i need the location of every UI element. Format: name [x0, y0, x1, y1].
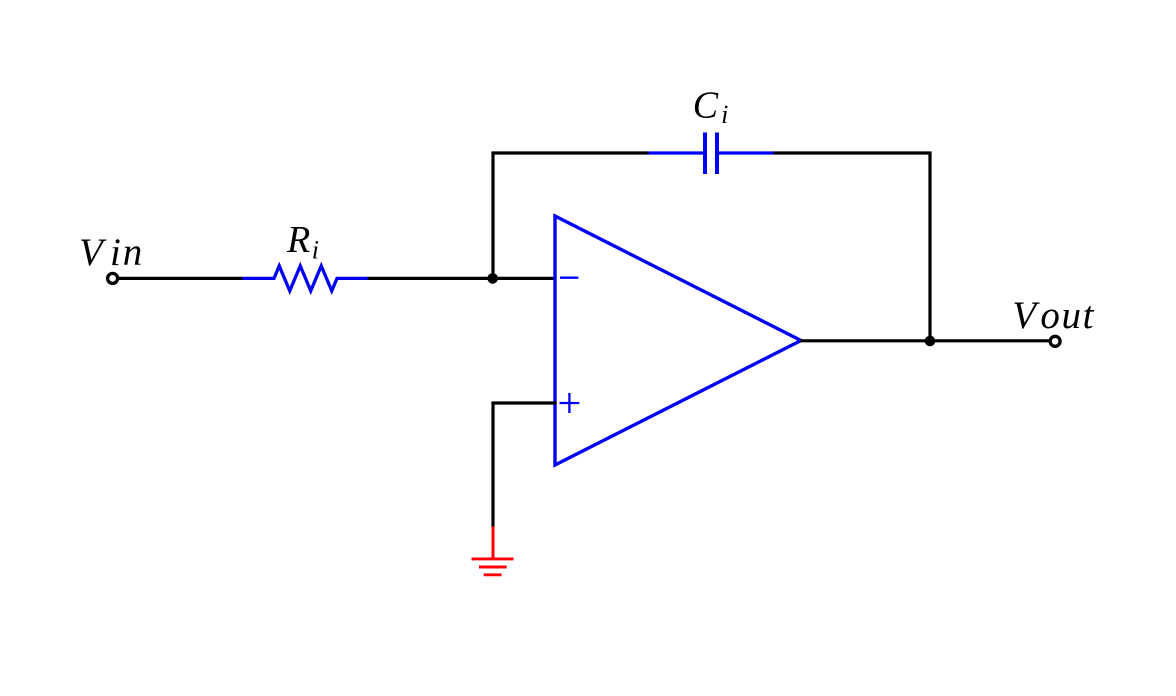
svg-text:Vout: Vout [1012, 294, 1095, 337]
capacitor Ci left plate [703, 133, 707, 175]
wire op-amp output to Vout terminal [800, 339, 1049, 342]
terminal Vout open circle [1050, 336, 1060, 346]
terminal Vin open circle [108, 273, 118, 283]
svg-text:Vin: Vin [79, 231, 144, 274]
op-amp U1 triangle [555, 216, 801, 465]
capacitor Ci right lead [719, 151, 774, 154]
wire capacitor to output node [774, 153, 930, 341]
ground bar 1 [472, 557, 514, 560]
svg-text:Ri: Ri [286, 219, 319, 264]
op-amp inverting input minus sign [560, 277, 578, 279]
svg-text:Ci: Ci [693, 85, 729, 130]
wire node A up and across to capacitor [493, 153, 649, 278]
node A junction dot [487, 273, 498, 284]
resistor Ri [242, 266, 368, 291]
wire input from Vin terminal to resistor [118, 277, 243, 280]
output node junction dot [925, 336, 936, 347]
capacitor Ci right plate [715, 133, 719, 175]
wire resistor to inverting input node [368, 277, 557, 280]
ground bar 3 [484, 573, 502, 576]
ground lead (red) [492, 527, 495, 559]
wire non-inverting input to ground [493, 403, 557, 528]
ground bar 2 [479, 566, 507, 569]
capacitor Ci left lead [649, 151, 704, 154]
op-amp non-inverting input plus sign [560, 393, 580, 413]
